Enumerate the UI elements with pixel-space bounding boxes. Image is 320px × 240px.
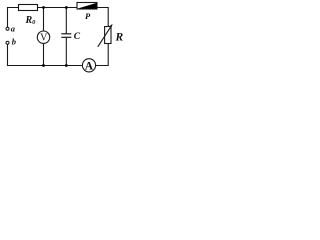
svg-text:A: A [85, 60, 94, 72]
svg-text:R: R [115, 31, 124, 43]
svg-text:a: a [11, 23, 16, 33]
svg-text:V: V [40, 33, 48, 44]
svg-text:C: C [74, 32, 81, 42]
svg-text:P: P [85, 11, 91, 21]
svg-text:b: b [12, 36, 16, 46]
